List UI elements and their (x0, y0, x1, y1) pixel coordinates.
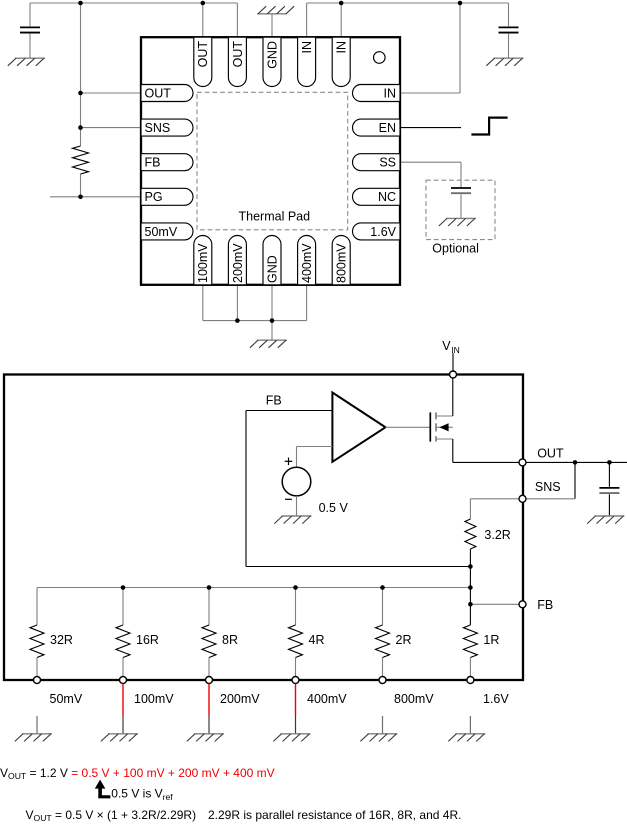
svg-text:IN: IN (335, 41, 349, 54)
svg-text:4R: 4R (309, 633, 325, 647)
svg-text:SNS: SNS (535, 480, 561, 494)
svg-text:8R: 8R (222, 633, 238, 647)
svg-text:800mV: 800mV (394, 692, 434, 706)
svg-text:Optional: Optional (432, 242, 479, 256)
svg-text:1.6V: 1.6V (370, 225, 396, 239)
svg-text:800mV: 800mV (335, 243, 349, 283)
svg-text:100mV: 100mV (134, 692, 174, 706)
svg-text:IN: IN (451, 345, 460, 355)
svg-text:EN: EN (379, 121, 396, 135)
svg-text:FB: FB (145, 156, 161, 170)
svg-text:2.29R is parallel resistance o: 2.29R is parallel resistance of 16R, 8R,… (208, 808, 461, 822)
svg-text:50mV: 50mV (50, 692, 83, 706)
svg-text:NC: NC (378, 190, 396, 204)
svg-text:SNS: SNS (145, 121, 171, 135)
svg-text:3.2R: 3.2R (484, 528, 510, 542)
svg-text:200mV: 200mV (220, 692, 260, 706)
svg-text:VOUT = 1.2 V = 0.5 V + 100 mV: VOUT = 1.2 V = 0.5 V + 100 mV + 200 mV +… (0, 766, 275, 781)
svg-text:100mV: 100mV (196, 243, 210, 283)
svg-text:Thermal Pad: Thermal Pad (239, 210, 311, 224)
svg-text:1.6V: 1.6V (483, 692, 509, 706)
svg-text:200mV: 200mV (231, 243, 245, 283)
svg-text:IN: IN (300, 41, 314, 54)
svg-text:400mV: 400mV (300, 243, 314, 283)
svg-text:16R: 16R (136, 633, 159, 647)
svg-text:SS: SS (379, 156, 396, 170)
svg-text:IN: IN (384, 86, 397, 100)
svg-text:50mV: 50mV (145, 225, 178, 239)
svg-text:GND: GND (265, 41, 279, 69)
svg-text:0.5 V: 0.5 V (319, 501, 349, 515)
svg-text:400mV: 400mV (307, 692, 347, 706)
svg-text:OUT: OUT (231, 41, 245, 68)
svg-text:1R: 1R (483, 633, 499, 647)
svg-text:OUT: OUT (145, 86, 172, 100)
svg-text:OUT: OUT (196, 41, 210, 68)
svg-text:FB: FB (266, 394, 282, 408)
svg-text:2R: 2R (396, 633, 412, 647)
svg-text:PG: PG (145, 190, 163, 204)
svg-text:32R: 32R (50, 633, 73, 647)
svg-text:GND: GND (265, 255, 279, 283)
svg-text:V: V (442, 339, 451, 353)
svg-text:VOUT = 0.5 V × (1 + 3.2R/2.29R: VOUT = 0.5 V × (1 + 3.2R/2.29R) (26, 808, 197, 823)
svg-text:FB: FB (537, 598, 553, 612)
svg-text:OUT: OUT (537, 447, 564, 461)
